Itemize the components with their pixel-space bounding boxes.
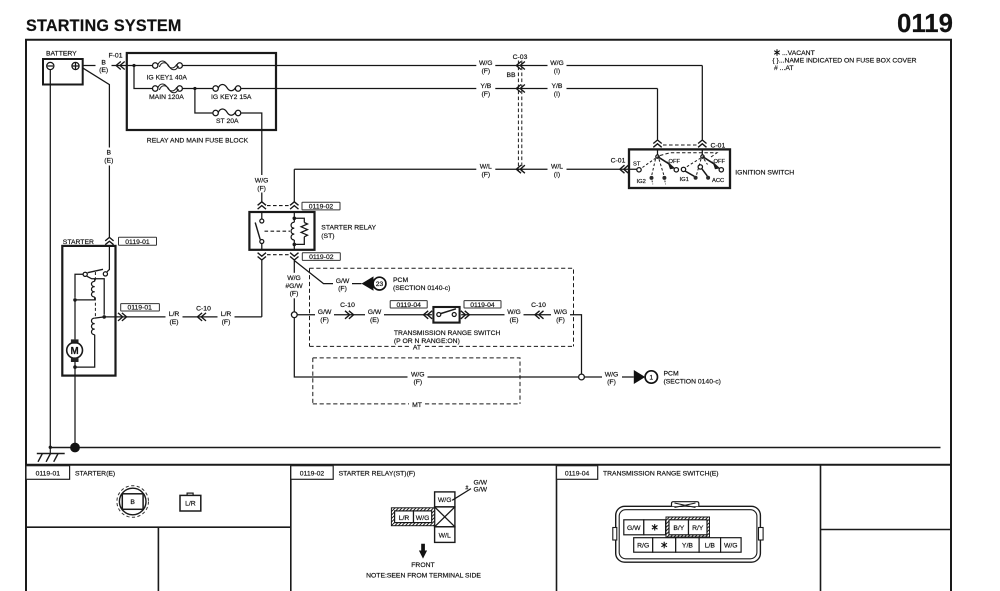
svg-text:Y/B: Y/B: [480, 83, 491, 90]
connector side notches: [613, 528, 617, 541]
wire G/W branch to PCM 23: [294, 261, 361, 284]
svg-text:Y/B: Y/B: [552, 83, 563, 90]
svg-text:STARTER RELAY(ST)(F): STARTER RELAY(ST)(F): [339, 471, 416, 478]
wire label W/G (F) to PCM 1: [602, 370, 622, 386]
svg-text:G/W: G/W: [336, 278, 350, 285]
svg-text:M: M: [71, 346, 79, 357]
PCM input arrow 23: [362, 276, 374, 290]
svg-text:(I): (I): [554, 172, 560, 179]
wire label Y/B (F) row2: [476, 81, 495, 97]
svg-text:W/L: W/L: [480, 164, 492, 171]
svg-text:0119-02: 0119-02: [300, 471, 325, 478]
wire label L/R (F): [218, 309, 235, 325]
wire coil top to junction B1: [95, 279, 105, 315]
starter relay (ST): [249, 212, 314, 250]
wire from top into pivot1: [657, 149, 659, 155]
starter mechanical link: [94, 272, 96, 318]
wire motor to ground: [74, 362, 76, 376]
svg-text:IGNITION SWITCH: IGNITION SWITCH: [735, 169, 794, 176]
svg-text:(F): (F): [607, 379, 616, 386]
rotor2 dashed rays: [686, 158, 708, 175]
svg-text:W/G: W/G: [605, 371, 619, 378]
svg-text:(F): (F): [556, 317, 565, 324]
svg-text:W/G: W/G: [479, 60, 493, 67]
svg-text:(I): (I): [554, 68, 560, 75]
relay coil: [293, 212, 295, 218]
svg-text:(E): (E): [99, 67, 108, 74]
svg-text:STARTING SYSTEM: STARTING SYSTEM: [26, 17, 182, 35]
svg-text:OFF: OFF: [714, 159, 726, 165]
battery negative wire to ground: [49, 70, 51, 447]
node: battery ground junction: [49, 446, 52, 449]
svg-text:W/G: W/G: [255, 177, 269, 184]
svg-text:G/W: G/W: [474, 487, 488, 494]
svg-text:R/G: R/G: [637, 542, 649, 549]
connector top lock tab: [672, 502, 699, 507]
ignition switch rotor1 pivot: [656, 155, 659, 158]
starter connector chevron: [118, 313, 127, 321]
svg-text:...VACANT: ...VACANT: [782, 50, 815, 57]
wire hold-in coil bottom to motor bottom: [75, 335, 95, 367]
C-01 dashed boundary inside ignition switch: [660, 153, 717, 157]
wire label W/G (F) row1: [476, 58, 495, 74]
wire from row1 node down to row2: [134, 66, 152, 89]
starter relay connector chevrons top: [258, 202, 266, 209]
svg-text:ST: ST: [633, 161, 641, 167]
svg-text:# ...AT: # ...AT: [774, 65, 794, 72]
hatched frame around B/Y R/Y: [666, 517, 710, 537]
wire G/W through transmission range switch: [297, 315, 581, 374]
AT dashed box: [310, 268, 574, 346]
svg-text:Y/B: Y/B: [682, 542, 693, 549]
wire label W/G (F): [253, 175, 272, 193]
svg-text:#: #: [466, 485, 469, 491]
svg-text:(SECTION 0140-c): (SECTION 0140-c): [393, 285, 450, 292]
fuse IG KEY2 15A: [211, 84, 252, 101]
fuse IG KEY1 40A: [147, 61, 188, 81]
wire W/G MT path: [294, 318, 634, 377]
svg-text:OFF: OFF: [669, 159, 681, 165]
wire label Y/B (I) row2: [548, 81, 567, 97]
battery: [43, 51, 83, 85]
wire label G/W (F): [315, 307, 334, 323]
svg-text:TRANSMISSION RANGE SWITCH: TRANSMISSION RANGE SWITCH: [394, 330, 501, 337]
svg-text:(F): (F): [338, 285, 347, 292]
pin W/G top: [435, 492, 455, 507]
wire label W/G (F): [551, 307, 570, 323]
pin W/G: [721, 538, 742, 553]
svg-text:(F): (F): [290, 291, 299, 298]
starter motor: [71, 339, 79, 343]
svg-text:(F): (F): [320, 317, 329, 324]
node: junction on row1: [132, 64, 135, 67]
svg-text:IG1: IG1: [680, 177, 689, 183]
ignition switch connector C-01 chevrons on top: [653, 140, 661, 147]
legend note: [772, 49, 916, 72]
starter M1: [62, 246, 115, 376]
svg-text:(SECTION 0140-c): (SECTION 0140-c): [664, 378, 721, 385]
chassis ground symbol: [37, 448, 65, 462]
connector C-03 chevron row2: [516, 85, 525, 93]
wire W/G from ST fuse down to starter relay: [241, 113, 262, 202]
terminal ST: [637, 168, 641, 172]
node C1: [73, 365, 77, 369]
wire label W/L (I) row3: [548, 162, 567, 178]
svg-text:{ }...NAME INDICATED ON FUSE B: { }...NAME INDICATED ON FUSE BOX COVER: [772, 58, 916, 65]
rotor2 blade with arrow to OFF: [703, 157, 715, 165]
connector C-03 chevron row3: [516, 165, 525, 173]
svg-text:W/L: W/L: [551, 164, 563, 171]
reference box 0119-02 bottom: [302, 253, 340, 261]
reference box 0119-02 top: [302, 202, 340, 210]
starter switch: [83, 272, 87, 276]
hatched frame around L/R W/G pins: [391, 508, 434, 526]
wire W/G from fuse to ignition switch: [183, 66, 703, 140]
svg-text:0119-01: 0119-01: [36, 471, 61, 478]
chassis ground bus: [50, 447, 941, 449]
svg-text:IG2: IG2: [637, 179, 646, 185]
svg-text:R/Y: R/Y: [692, 525, 704, 532]
transmission range switch contact: [433, 307, 459, 323]
contact IG1 blade: [681, 167, 685, 171]
starter relay connector chevrons bottom: [258, 253, 266, 260]
node B junction: [579, 374, 585, 380]
reference box 0119-01 on L/R wire: [121, 304, 160, 312]
contact ACC blade: [698, 165, 702, 169]
wire label G/W (E): [365, 307, 384, 323]
pin vacant: [653, 538, 676, 553]
wire Y/B from fuse to ignition switch: [241, 89, 657, 140]
svg-text:STARTER: STARTER: [63, 239, 94, 246]
relay and main fuse block: [127, 53, 276, 130]
wire label L/R (E): [166, 309, 183, 325]
svg-text:MT: MT: [412, 402, 422, 409]
svg-text:0119-04: 0119-04: [470, 302, 495, 309]
connector C-10 chevron: [535, 311, 544, 319]
pointer to pin W/G label: [452, 489, 471, 501]
svg-text:PCM: PCM: [393, 277, 408, 284]
wire label B (E): [96, 58, 112, 73]
svg-text:0119-01: 0119-01: [125, 239, 150, 246]
pin vacant: [644, 520, 666, 535]
svg-text:B: B: [107, 150, 112, 157]
svg-text:23: 23: [376, 281, 384, 288]
wire row2 to fuse IG KEY2: [183, 88, 213, 90]
svg-text:STARTER RELAY: STARTER RELAY: [321, 225, 376, 232]
connector C-10 chevron: [197, 313, 206, 321]
svg-text:W/G: W/G: [550, 60, 564, 67]
svg-text:FRONT: FRONT: [411, 562, 434, 569]
fuse ST 20A: [213, 109, 241, 125]
svg-text:W/G: W/G: [287, 275, 301, 282]
wire from row2 node down to ST fuse: [195, 89, 213, 114]
node: starter ground junction (bold): [70, 443, 80, 453]
terminals IG2: [650, 176, 654, 180]
connector C-10 chevron: [345, 311, 354, 319]
svg-text:STARTER(E): STARTER(E): [75, 471, 115, 478]
rotor1 blade with arrow to OFF: [658, 157, 670, 165]
svg-text:W/G: W/G: [438, 497, 452, 504]
svg-text:MAIN 120A: MAIN 120A: [149, 94, 184, 101]
bottom table frame: [26, 464, 951, 466]
connector view L/R terminal: [180, 493, 201, 511]
rotor1 dashed rays: [641, 158, 664, 175]
relay mechanical link: [265, 230, 291, 232]
wire starter to chassis ground: [74, 376, 76, 448]
starter pull-in coil: [91, 281, 94, 297]
wire label G/W (F): [333, 276, 352, 292]
wire label W/G #G/W (F): [284, 273, 305, 299]
svg-text:C-01: C-01: [611, 157, 626, 164]
pin R/G: [634, 538, 653, 553]
svg-text:W/G: W/G: [416, 515, 430, 522]
svg-text:W/G: W/G: [507, 309, 521, 316]
cell 0119-02 header: [291, 466, 333, 480]
battery positive wire down to starter: [83, 68, 110, 237]
connector F-01 chevron: [116, 62, 125, 70]
reference box 0119-04 right: [464, 301, 501, 309]
svg-text:W/G: W/G: [724, 542, 738, 549]
relay coil shunt resistor: [294, 218, 307, 244]
wire label W/G (F) on MT path: [408, 370, 428, 386]
wire label W/G (I) row1: [548, 58, 567, 74]
pin vacant X: [435, 507, 455, 527]
svg-text:G/W: G/W: [318, 309, 332, 316]
svg-text:W/G: W/G: [554, 309, 568, 316]
svg-text:ACC: ACC: [712, 178, 724, 184]
node A1: [73, 298, 77, 302]
cell 0119-01 header: [26, 466, 70, 480]
svg-text:W/G: W/G: [411, 371, 425, 378]
wire row1 inside fuse block: [127, 65, 152, 67]
wire label W/L (F) row3: [476, 162, 495, 178]
relay connector view: [366, 479, 488, 579]
svg-text:B: B: [130, 499, 135, 506]
starter top chevron: [105, 237, 113, 244]
svg-text:ST 20A: ST 20A: [216, 118, 239, 125]
node A junction: [291, 312, 297, 318]
svg-text:1: 1: [649, 375, 653, 382]
reference box 0119-04 left: [390, 301, 427, 309]
svg-text:(F): (F): [222, 319, 231, 326]
svg-text:G/W: G/W: [627, 525, 641, 532]
fuse MAIN 120A: [149, 84, 184, 101]
node B1: [102, 315, 106, 319]
svg-text:(F): (F): [413, 379, 422, 386]
svg-text:(E): (E): [370, 317, 379, 324]
starter hold-in coil: [91, 318, 94, 335]
wire label B (E): [101, 148, 118, 166]
svg-text:0119-04: 0119-04: [396, 302, 421, 309]
ignition switch U1: [629, 149, 730, 188]
wire label W/G (E): [505, 307, 524, 323]
svg-text:BATTERY: BATTERY: [46, 51, 77, 58]
svg-text:L/R: L/R: [169, 311, 180, 318]
svg-text:W/L: W/L: [439, 532, 451, 539]
starter feed wire: [107, 246, 109, 272]
svg-text:0119-04: 0119-04: [565, 471, 590, 478]
svg-text:(E): (E): [169, 319, 178, 326]
MT dashed box: [313, 358, 520, 404]
svg-text:(I): (I): [554, 91, 560, 98]
svg-text:NOTE:SEEN FROM TERMINAL SIDE: NOTE:SEEN FROM TERMINAL SIDE: [366, 573, 481, 580]
wire L/R starter to relay: [104, 260, 262, 317]
wire from relay coil down to node A: [293, 260, 295, 312]
wire W/L from ignition switch to starter relay: [294, 169, 637, 202]
battery B+ wire to fuse block: [83, 65, 127, 67]
svg-text:0119-02: 0119-02: [309, 204, 334, 211]
svg-text:(E): (E): [104, 158, 113, 165]
svg-text:0119-02: 0119-02: [309, 254, 334, 261]
svg-text:B: B: [101, 59, 106, 66]
svg-text:PCM: PCM: [664, 370, 679, 377]
ignition switch rotor2 pivot: [701, 155, 704, 158]
svg-text:C-03: C-03: [513, 54, 528, 61]
connector view B terminal: [117, 486, 149, 518]
connector chevron into switch: [424, 311, 433, 319]
wire coil bottom to junction A1: [75, 297, 95, 300]
wire switch to junction A1: [75, 274, 83, 298]
connector C-01 chevron at ignition ST: [620, 165, 629, 173]
transmission range switch connector view: [613, 502, 763, 563]
front direction arrow: [419, 544, 427, 559]
svg-text:BB: BB: [506, 72, 516, 79]
PCM input arrow 1: [634, 370, 645, 384]
relay switch contact: [261, 212, 263, 219]
svg-text:0119: 0119: [897, 10, 953, 38]
svg-text:L/R: L/R: [399, 515, 410, 522]
svg-text:L/R: L/R: [221, 311, 232, 318]
wire switch to coil top: [87, 276, 95, 281]
pin W/L bottom: [435, 527, 455, 543]
svg-text:IG KEY1 40A: IG KEY1 40A: [147, 74, 188, 81]
svg-text:(F): (F): [481, 68, 490, 75]
svg-text:(F): (F): [257, 185, 266, 192]
svg-text:RELAY AND MAIN FUSE BLOCK: RELAY AND MAIN FUSE BLOCK: [147, 138, 249, 145]
node: junction on row2: [193, 87, 196, 90]
connector chevron out of switch: [461, 311, 470, 319]
svg-text:TRANSMISSION RANGE SWITCH(E): TRANSMISSION RANGE SWITCH(E): [603, 471, 719, 478]
svg-text:C-10: C-10: [196, 305, 211, 312]
svg-text:(F): (F): [481, 91, 490, 98]
svg-text:G/W: G/W: [368, 309, 382, 316]
cell 0119-04 header: [557, 466, 598, 480]
svg-text:B/Y: B/Y: [673, 525, 684, 532]
pin Y/B: [676, 538, 699, 553]
svg-text:G/W: G/W: [474, 479, 488, 486]
svg-text:L/B: L/B: [705, 542, 716, 549]
wire junction A1 to motor: [74, 300, 76, 340]
connector C-03 chevron row1: [516, 62, 525, 70]
svg-text:AT: AT: [413, 344, 421, 351]
svg-text:L/R: L/R: [185, 501, 196, 508]
connector C-03 boundary: [506, 54, 527, 172]
reference box 0119-01 top: [119, 237, 157, 246]
pin G/W: [624, 520, 644, 535]
svg-text:(P OR N RANGE:ON): (P OR N RANGE:ON): [394, 338, 460, 345]
svg-text:(E): (E): [509, 317, 518, 324]
svg-text:C-10: C-10: [531, 302, 546, 309]
svg-text:0119-01: 0119-01: [127, 305, 152, 312]
svg-text:#G/W: #G/W: [285, 283, 303, 290]
wire from top into pivot2: [701, 149, 703, 155]
wire hold-in coil top to junction B1: [95, 317, 105, 318]
pin L/B: [699, 538, 721, 553]
svg-text:IG KEY2 15A: IG KEY2 15A: [211, 94, 252, 101]
svg-text:C-10: C-10: [340, 302, 355, 309]
svg-text:(F): (F): [481, 172, 490, 179]
svg-text:(ST): (ST): [321, 233, 334, 240]
